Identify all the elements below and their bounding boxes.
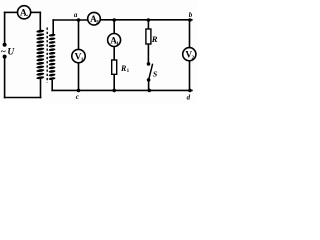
svg-text:~: ~: [1, 48, 6, 58]
wire V2 branch lower: [189, 61, 191, 91]
voltmeter V2: [183, 48, 196, 62]
wire bottom-left horizontal (primary return): [5, 97, 41, 99]
svg-text:b: b: [189, 11, 193, 19]
svg-text:S: S: [153, 69, 158, 78]
svg-text:~: ~: [24, 12, 28, 20]
ammeter A1 (branch with R1): [108, 34, 121, 48]
svg-text:2: 2: [96, 20, 99, 26]
wire R1 lower stem: [113, 74, 115, 90]
svg-text:2: 2: [192, 55, 195, 61]
transformer T secondary winding: [49, 33, 56, 80]
wire top bus a-b (secondary to node b): [53, 19, 88, 21]
wire V2 branch upper: [189, 20, 191, 48]
wire top bus right of ammeter A2: [100, 19, 192, 21]
junction dot R top: [147, 18, 151, 22]
node d junction dot: [188, 89, 192, 93]
node a junction dot: [77, 18, 81, 22]
node c junction dot: [77, 89, 81, 93]
resistor R body: [146, 29, 151, 44]
wire V1 branch lower: [78, 63, 80, 91]
transformer T primary winding: [36, 29, 44, 79]
switch S upper contact dot: [147, 62, 151, 66]
ammeter A~ (AC, primary side): [18, 6, 31, 20]
wire secondary bottom lead: [51, 81, 53, 91]
resistor R1 label: [120, 64, 130, 74]
svg-text:a: a: [74, 11, 78, 19]
svg-text:1: 1: [116, 41, 119, 47]
source label ~U: [1, 48, 16, 58]
wire ammeter to primary lead corner: [31, 11, 41, 13]
wire R branch upper stem: [147, 20, 149, 29]
wire secondary top lead: [52, 20, 54, 34]
svg-text:d: d: [187, 93, 191, 101]
junction dot R1 bottom: [112, 89, 116, 93]
transformer T core (dashed): [46, 28, 48, 83]
svg-text:U: U: [7, 48, 15, 58]
svg-text:1: 1: [81, 57, 84, 63]
wire R to switch stem: [147, 44, 149, 63]
switch S blade: [149, 64, 153, 79]
svg-text:1: 1: [127, 69, 130, 74]
wire left vertical upper (source top lead): [4, 12, 6, 44]
switch S lower contact dot: [147, 78, 151, 82]
wire switch lower stem: [148, 81, 150, 90]
resistor R1 body: [112, 60, 117, 74]
wire primary top lead: [39, 12, 41, 30]
wire bottom bus c-d: [52, 89, 192, 91]
voltmeter V1: [72, 49, 85, 63]
wire primary bottom lead: [40, 80, 42, 98]
svg-text:R: R: [151, 34, 158, 44]
wire A1 to R1 stem: [113, 47, 115, 60]
source terminal dot lower: [3, 55, 7, 59]
node b junction dot: [188, 18, 192, 22]
junction dot switch bottom: [148, 89, 152, 93]
ammeter A2 (series, top bus): [88, 12, 101, 25]
svg-text:c: c: [76, 93, 79, 101]
wire A1 branch upper stem: [113, 20, 115, 34]
wire left vertical lower (source bottom lead): [4, 57, 6, 98]
wire top-left horizontal from source to ammeter: [5, 11, 18, 13]
source terminal dot upper: [3, 43, 7, 47]
wire V1 branch upper: [78, 20, 80, 49]
junction dot A1 top: [112, 18, 116, 22]
